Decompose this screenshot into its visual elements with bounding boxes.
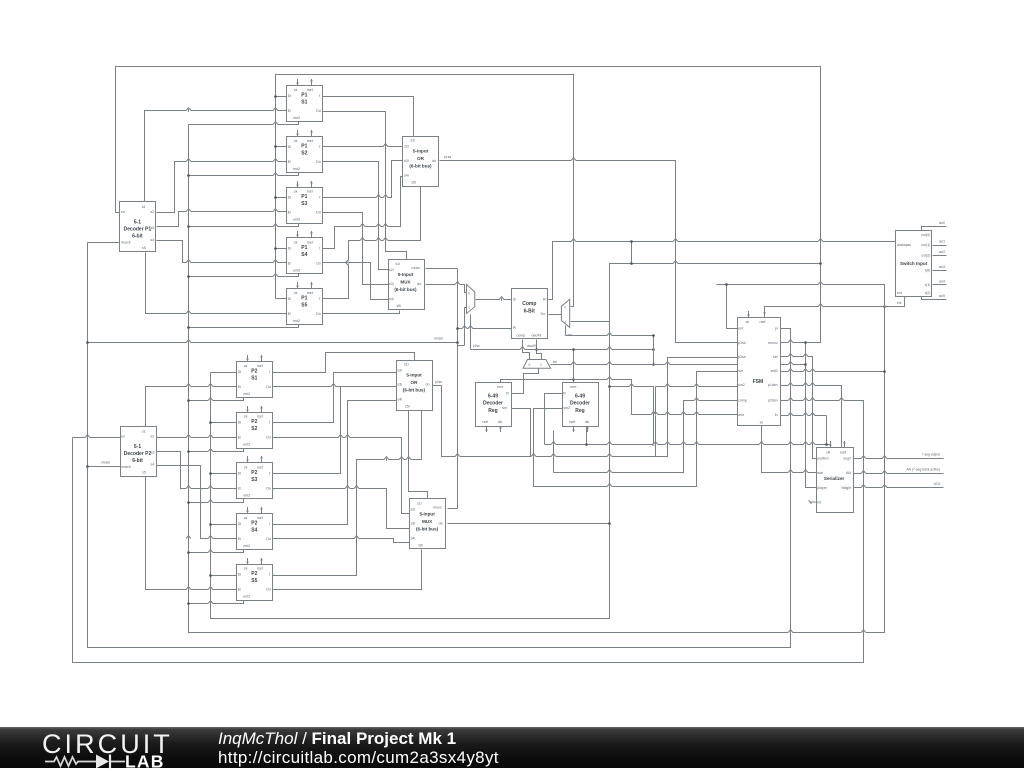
svg-text:5-1: 5-1 (134, 444, 141, 450)
junction mxsel at decoder P2 (86, 465, 89, 468)
junction P2 S3 Di (209, 472, 212, 475)
svg-text:1: 1 (564, 320, 566, 324)
resistor and diode glyph (45, 757, 125, 766)
wire 2-1 mux out to comp Si (476, 299, 512, 301)
wire decoder P1 muxctl (88, 242, 120, 244)
svg-text:player: player (817, 486, 828, 490)
wire P1 S1 ent2 return (189, 122, 299, 125)
wire net mre to FSM mre (574, 380, 738, 415)
svg-text:S3: S3 (251, 477, 257, 483)
svg-text:5-Input: 5-Input (406, 373, 422, 378)
decoder block U2 5-1 Decoder P2 (121, 427, 157, 477)
wire net ent2: chain rail down and across bottom up to switch ent (189, 125, 885, 633)
svg-text:s5i: s5i (412, 181, 417, 185)
svg-text:s1i: s1i (404, 363, 409, 367)
wire P2 S1 Do to MUX s1i (273, 387, 428, 499)
svg-text:ck: ck (294, 88, 298, 92)
wire net p2ss to FSM p2ss (442, 358, 738, 457)
svg-text:Decoder P2: Decoder P2 (124, 451, 152, 457)
wire FSM p1dsn down to serializer rset (780, 386, 842, 448)
wire P1 S5 Di stub (276, 298, 287, 300)
wire switch input r(2) stub (922, 297, 947, 300)
junction tap at clk (652, 443, 655, 446)
svg-text:pi: pi (775, 327, 778, 331)
svg-text:Comp: Comp (522, 301, 536, 307)
junction clk at fn (825, 443, 828, 446)
wire P2 S1 ent2 return (189, 398, 244, 401)
svg-text:rset: rset (307, 291, 313, 295)
svg-text:do: do (426, 383, 430, 387)
svg-text:S4: S4 (301, 252, 307, 258)
svg-text:f: f (269, 522, 270, 526)
svg-text:s1: s1 (142, 205, 146, 209)
wire 6-49 reg1 sm down to p2ss run (512, 409, 531, 457)
svg-text:sv: sv (760, 421, 764, 425)
svg-text:s4i: s4i (411, 536, 416, 540)
svg-text:P2: P2 (251, 368, 257, 374)
junction ent2 P1 S3 (187, 225, 190, 228)
svg-text:r(1): r(1) (925, 283, 931, 287)
junction mre (572, 378, 575, 381)
svg-text:s2i: s2i (389, 268, 394, 272)
svg-text:f: f (319, 297, 320, 301)
svg-text:out4: out4 (939, 279, 945, 283)
svg-text:6-bit: 6-bit (132, 233, 143, 239)
svg-text:ent2: ent2 (243, 443, 250, 447)
svg-text:Di: Di (288, 94, 292, 98)
wire link up to top rail right side (820, 67, 822, 264)
2-to-1 mux trapezoid M3 (523, 360, 557, 369)
svg-text:s3: s3 (151, 451, 155, 455)
svg-text:rset: rset (257, 516, 263, 520)
svg-text:Do: Do (266, 436, 271, 440)
junction ent2 P2 S3 (187, 501, 190, 504)
wire net sin2 feeder down (655, 387, 657, 457)
svg-text:sel: sel (553, 360, 557, 364)
svg-text:ent2: ent2 (771, 369, 778, 373)
svg-text:f: f (269, 421, 270, 425)
svg-text:mxsel: mxsel (101, 461, 110, 465)
wire P1 S2 Do to MUX s2i (323, 162, 389, 270)
wire P2 S4 ent2 return (189, 550, 244, 553)
svg-text:dac49: dac49 (527, 344, 536, 348)
junction P1 S1 Di (274, 95, 277, 98)
wire FSM sv down to serializer stat (762, 426, 817, 473)
wire FSM rset to switch ent line (765, 307, 905, 318)
wire 2-1 mux2 input 1 to p2di rail (571, 321, 610, 323)
wire switch input output stub 1 (933, 245, 947, 247)
svg-text:Decoder: Decoder (483, 401, 503, 407)
junction P1 S2 Di (274, 145, 277, 148)
svg-text:Decoder: Decoder (570, 401, 590, 407)
wire comp dac49 pin to mux3 input 1 (537, 340, 542, 360)
svg-text:rset: rset (257, 415, 263, 419)
svg-text:S3: S3 (301, 201, 307, 207)
svg-text:5-Input: 5-Input (398, 272, 414, 277)
wire P1 S3 f to OR s3i (323, 161, 403, 198)
svg-text:s2i: s2i (404, 145, 409, 149)
wire 2-1 mux sel stub down to dac49 run (470, 315, 472, 350)
svg-text:out2: out2 (939, 250, 945, 254)
svg-text:s5i: s5i (405, 405, 410, 409)
svg-text:(6-bit bus): (6-bit bus) (416, 526, 439, 531)
wire switch input col(0) stub (922, 227, 947, 231)
wire P2 S4 f to OR s4i (273, 401, 397, 525)
wire switch input ent down to ent2 rail (885, 297, 905, 307)
svg-text:Do: Do (266, 588, 271, 592)
svg-text:comp: comp (517, 334, 526, 338)
svg-text:Do: Do (266, 537, 271, 541)
svg-text:rset: rset (840, 450, 846, 454)
svg-text:S5: S5 (301, 303, 307, 309)
svg-text:P2: P2 (251, 470, 257, 476)
svg-text:s4i: s4i (404, 174, 409, 178)
wire sel up to rmuxc (805, 343, 807, 365)
svg-text:ent2: ent2 (243, 493, 250, 497)
wire net p1en: FSM rmuxc to top rail to decoder P1 en (116, 67, 821, 343)
svg-text:ck: ck (244, 364, 248, 368)
svg-text:Do: Do (316, 211, 321, 215)
svg-text:col(2): col(2) (921, 254, 930, 258)
svg-text:en: en (121, 210, 125, 214)
svg-text:6-bit: 6-bit (132, 458, 143, 464)
svg-text:sm: sm (502, 406, 507, 410)
svg-text:rset: rset (482, 420, 488, 424)
wire P1 S5 Do to MUX s5i (323, 311, 400, 314)
junction ent (725, 283, 728, 286)
svg-text:Ei: Ei (288, 211, 291, 215)
svg-text:LAB: LAB (125, 752, 165, 770)
svg-text:Ri: Ri (543, 297, 547, 301)
junction dac49 net tap (535, 348, 538, 351)
svg-text:rset: rset (257, 465, 263, 469)
wire FSM ctrl to serializer position (780, 357, 817, 459)
svg-text:5-Input: 5-Input (419, 511, 435, 516)
svg-text:ck: ck (294, 190, 298, 194)
wire 2-1 mux2 sel stub (565, 326, 567, 336)
svg-text:MUX: MUX (400, 280, 411, 285)
wire P2 S5 f to OR s5i (273, 411, 422, 576)
junction mxsel branch (86, 341, 89, 344)
wire P1 S4 Do to MUX s4i (323, 263, 389, 300)
svg-text:s3: s3 (151, 226, 155, 230)
wire feeder link (458, 345, 465, 347)
svg-text:ent2: ent2 (243, 595, 250, 599)
svg-text:sin2: sin2 (738, 383, 745, 387)
svg-text:6-49: 6-49 (575, 393, 585, 399)
wire serializer AN output (853, 473, 944, 475)
svg-text:Ei: Ei (238, 436, 241, 440)
junction chak link (630, 240, 633, 243)
wire P2 S5 Di stub (211, 575, 237, 577)
junction comp Pi (456, 327, 459, 330)
svg-text:f: f (269, 471, 270, 475)
serializer block U12 (817, 441, 854, 513)
svg-text:S1: S1 (301, 100, 307, 106)
wire P2 S4 Di stub (211, 524, 237, 526)
wire FSM fn stub (780, 415, 827, 417)
svg-text:f: f (269, 573, 270, 577)
svg-text:1: 1 (468, 306, 470, 310)
wire decoder P1 en stub (116, 212, 120, 214)
svg-text:f: f (319, 196, 320, 200)
svg-text:Di: Di (288, 196, 292, 200)
svg-text:s1: s1 (142, 429, 146, 433)
svg-text:Di: Di (238, 421, 242, 425)
svg-text:rset: rset (760, 320, 766, 324)
svg-text:s2i: s2i (398, 369, 403, 373)
wire net clk line to serializer clk (545, 445, 831, 448)
register block P1S2 (287, 130, 323, 173)
wire 2-1 mux input 1 feeder (465, 308, 467, 346)
wire P1 S3 Do to MUX s3i (323, 213, 389, 285)
register block P2S5 (237, 558, 273, 601)
wire switch input output stub 2 (933, 255, 947, 257)
svg-text:s4i: s4i (389, 297, 394, 301)
svg-text:Ei: Ei (288, 160, 291, 164)
wire decoder P2 s3 to S3 Ei (157, 452, 237, 489)
register block P2S1 (237, 355, 273, 398)
junction MUX P2 do at rail (608, 522, 611, 525)
svg-text:f: f (269, 370, 270, 374)
wire serializer hitlight output (853, 487, 944, 489)
svg-text:Reg: Reg (575, 408, 584, 414)
register block P2S2 (237, 406, 273, 449)
svg-text:s3i: s3i (389, 282, 394, 286)
wire decoder P2 s4 to S4 Ei (157, 466, 237, 539)
svg-text:sin: sin (738, 369, 743, 373)
svg-text:s1i: s1i (396, 262, 401, 266)
svg-text:5-Input: 5-Input (413, 149, 429, 154)
svg-text:seg7: seg7 (843, 456, 851, 460)
svg-text:ck: ck (244, 567, 248, 571)
svg-text:Do: Do (316, 109, 321, 113)
svg-text:Do: Do (266, 486, 271, 490)
wire comp comp pin to mux3 input 0 (523, 340, 530, 360)
svg-text:Do: Do (541, 312, 546, 316)
svg-text:dac49: dac49 (532, 334, 542, 338)
junction P2 S4 Di (209, 523, 212, 526)
wire comp Pi to mux select vertical (458, 328, 512, 330)
svg-text:Ei: Ei (238, 588, 241, 592)
svg-text:Do: Do (316, 312, 321, 316)
svg-text:MUX: MUX (422, 519, 433, 524)
junction sel collector at sel line (652, 363, 655, 366)
wire mux2 sel run to collector (566, 335, 654, 337)
svg-text:s2i: s2i (411, 507, 416, 511)
wire P1 S1 Di stub (276, 96, 287, 98)
svg-text:do: do (439, 522, 443, 526)
svg-text:Si: Si (513, 297, 516, 301)
svg-text:p1dsn: p1dsn (768, 383, 778, 387)
wire sel down to serializer player (806, 365, 817, 488)
wire P1 S5 f to OR s5i (323, 187, 421, 299)
wire net p1ss: OR P1 do to FSM p1ss (440, 161, 738, 343)
svg-text:fn: fn (775, 413, 778, 417)
svg-text:Ei: Ei (238, 385, 241, 389)
svg-text:P1: P1 (301, 296, 307, 302)
wire 6-49 reg2 clk stub (586, 427, 588, 445)
wire P2 S2 ent2 return (189, 449, 244, 452)
svg-text:rset: rset (307, 88, 313, 92)
svg-text:(6-bit bus): (6-bit bus) (403, 388, 426, 393)
svg-text:Di: Di (238, 522, 242, 526)
wire FSM sin2 stub (656, 386, 738, 388)
wire net mxsel: FSM pi down around bottom up to muxctl rail (88, 243, 791, 648)
wire P2 S2 Do to MUX s2i (273, 438, 410, 514)
svg-text:rset: rset (257, 364, 263, 368)
svg-text:6-49: 6-49 (488, 394, 498, 400)
svg-text:rset: rset (257, 567, 263, 571)
svg-text:LED: LED (934, 482, 941, 486)
svg-text:clk: clk (585, 420, 590, 424)
svg-text:out5: out5 (939, 294, 945, 298)
junction sel vertical (804, 363, 807, 366)
junction ent2 P2 S2 (187, 450, 190, 453)
svg-text:do: do (417, 282, 421, 286)
6-49 decoder reg block U9 6-49 Decoder Reg 2 (563, 383, 599, 433)
wire P1 S3 Di stub (276, 197, 287, 199)
svg-text:(6-bit bus): (6-bit bus) (394, 287, 417, 292)
svg-text:muxc: muxc (433, 505, 442, 509)
junction ent2 at FSM (883, 370, 886, 373)
svg-text:ent2: ent2 (243, 544, 250, 548)
svg-text:P1: P1 (301, 143, 307, 149)
wire P2 S5 Do to MUX s5i (273, 550, 422, 590)
FSM block U10 (738, 311, 781, 426)
svg-text:out3: out3 (939, 265, 945, 269)
junction ent2 P2 S4 (187, 551, 190, 554)
MUX block U6 MUX P2 (410, 499, 446, 549)
svg-text:f: f (319, 246, 320, 250)
svg-text:s5: s5 (142, 470, 146, 474)
wire P2 S3 f to OR s3i (273, 387, 397, 474)
wire net p1di: Di chain rail up and over to mux2 input 0 (276, 75, 574, 307)
wire decoder P1 s1 to S1 Ei (145, 111, 287, 202)
wire switch input output stub 3 (933, 270, 947, 272)
wire P1 S4 f to OR s4i (323, 177, 403, 249)
svg-text:r(2): r(2) (925, 291, 931, 295)
svg-text:ck: ck (244, 516, 248, 520)
svg-text:muxctl: muxctl (121, 240, 131, 244)
svg-text:hit: hit (817, 501, 821, 505)
wire 6-49 reg2 R down to clk line (545, 394, 563, 445)
svg-text:hitlight: hitlight (841, 486, 851, 490)
junction clk reg2 (585, 443, 588, 446)
wire P2 S2 f to OR s2i (273, 373, 397, 423)
2-to-1 mux trapezoid M1 (467, 285, 475, 314)
footer title text (218, 730, 499, 767)
svg-text:r(0): r(0) (925, 269, 931, 273)
svg-text:P2: P2 (251, 419, 257, 425)
svg-text:s5i: s5i (418, 543, 423, 547)
svg-text:ent2: ent2 (243, 392, 250, 396)
svg-text:ck: ck (294, 240, 298, 244)
svg-text:mre: mre (738, 413, 744, 417)
wire net p2di: Di chain rail, bottom run, up and right (211, 264, 821, 619)
svg-text:rmuxc: rmuxc (768, 341, 778, 345)
svg-text:p2ss: p2ss (435, 380, 442, 384)
svg-text:ck: ck (244, 415, 248, 419)
svg-text:Do: Do (316, 160, 321, 164)
svg-text:p2ss: p2ss (738, 355, 746, 359)
wire net chak: comp Ri up to switch input chakapas (549, 242, 896, 300)
wire MUX P2 muxc stub (448, 508, 458, 510)
svg-text:s3i: s3i (411, 522, 416, 526)
svg-text:AN: AN (846, 471, 851, 475)
wire decoder P1 s3 to S3 Ei (157, 212, 287, 227)
svg-text:s3i: s3i (404, 159, 409, 163)
svg-text:Switch Input: Switch Input (900, 261, 928, 266)
junction collector top (652, 334, 655, 337)
wire OR P2 do stub (433, 385, 442, 387)
svg-text:ent2: ent2 (293, 167, 300, 171)
svg-text:clk: clk (826, 450, 831, 454)
wire decoder P1 s2 to S2 Ei (157, 162, 287, 213)
wire P1 S1 f to OR s1i (323, 97, 414, 137)
svg-text:ctrl: ctrl (773, 355, 778, 359)
register block P1S5 (287, 282, 323, 325)
junction ent2 P1 S4 (187, 275, 190, 278)
junction P1 S4 Di (274, 247, 277, 250)
OR block U3 OR P1 (403, 137, 439, 187)
svg-text:Di: Di (288, 297, 292, 301)
wire mux select vertical P1 muxc to P2 muxc (457, 269, 459, 509)
wire decoder P2 muxctl (88, 466, 121, 468)
svg-text:Di: Di (288, 145, 292, 149)
svg-text:rset: rset (307, 190, 313, 194)
junction ent2 P1 S5 (187, 326, 190, 329)
junction P1 S3 Di (274, 196, 277, 199)
wire FSM fn down (826, 416, 828, 445)
svg-text:1: 1 (540, 363, 542, 367)
svg-text:s5i: s5i (397, 304, 402, 308)
svg-text:mxsel: mxsel (434, 337, 443, 341)
junction ent2 P1 S2 (187, 174, 190, 177)
svg-text:Pi: Pi (513, 326, 516, 330)
wire vertical hop (347, 260, 349, 265)
wire P1 S2 Di stub (276, 146, 287, 148)
svg-text:position: position (817, 456, 829, 460)
wire decoder P2 s2 to S2 Ei (157, 437, 237, 439)
6-49 decoder reg block U8 6-49 Decoder Reg 1 (476, 383, 512, 433)
svg-text:Ei: Ei (288, 312, 291, 316)
junction ent2 P2 S5 (187, 602, 190, 605)
svg-text:rset: rset (307, 240, 313, 244)
svg-text:AN (7-seg bank active): AN (7-seg bank active) (906, 467, 940, 471)
svg-text:ent: ent (897, 291, 902, 295)
svg-text:col(1): col(1) (921, 243, 930, 247)
svg-text:Di: Di (238, 370, 242, 374)
svg-text:s1i: s1i (411, 139, 416, 143)
svg-text:Decoder P1: Decoder P1 (124, 226, 152, 232)
svg-text:ck: ck (746, 320, 750, 324)
svg-text:0: 0 (529, 363, 531, 367)
svg-text:Serializer: Serializer (824, 476, 845, 481)
svg-text:s4i: s4i (398, 398, 403, 402)
svg-text:muxc: muxc (412, 266, 421, 270)
svg-text:Ei: Ei (288, 261, 291, 265)
wire MUX P2 do right to rail (448, 523, 610, 525)
svg-text:ck: ck (294, 291, 298, 295)
svg-text:f: f (319, 145, 320, 149)
svg-text:R: R (506, 391, 509, 395)
svg-text:ent2: ent2 (293, 116, 300, 120)
junction p2di at right rail (819, 262, 822, 265)
wire decoder P1 s5 to S5 Ei (146, 253, 287, 314)
wire switch input output stub 4 (933, 284, 947, 286)
decoder block U1 5-1 Decoder P1 (120, 202, 156, 252)
